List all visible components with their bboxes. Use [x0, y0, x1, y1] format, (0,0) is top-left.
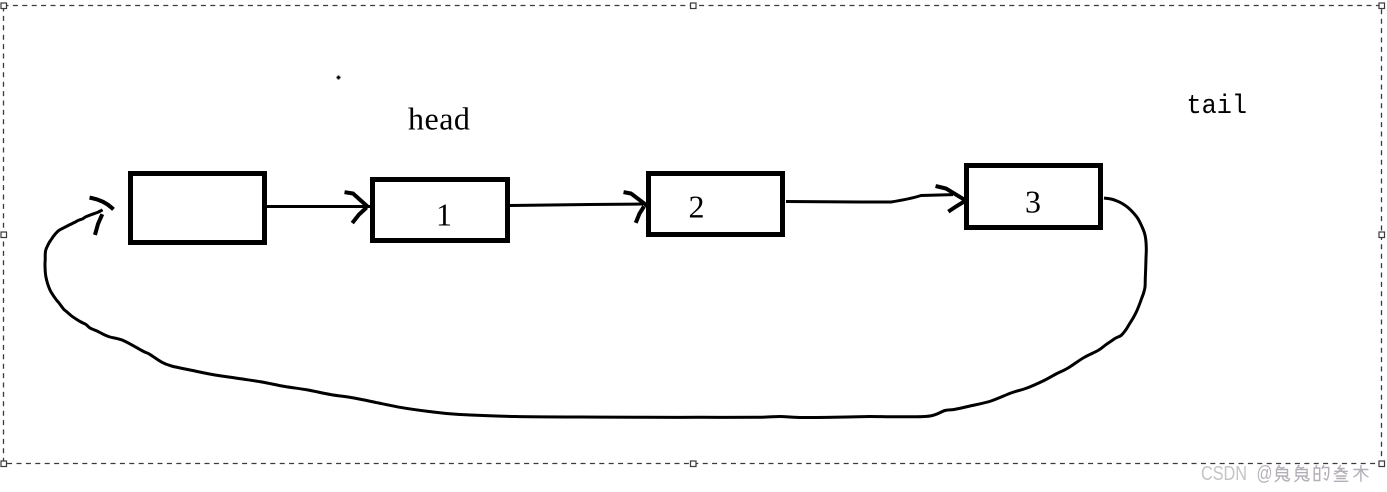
svg-text:CSDN: CSDN	[1201, 463, 1247, 485]
svg-text:@: @	[1257, 463, 1273, 485]
node box head (empty)	[131, 174, 265, 243]
svg-text:head: head	[408, 101, 470, 137]
glyph tu1	[1275, 465, 1290, 482]
svg-text:tail: tail	[1187, 92, 1248, 122]
glyph san	[1334, 465, 1349, 481]
selection handle bottom-center	[691, 461, 697, 467]
arrowhead into box2	[626, 193, 646, 205]
selection handle top-right	[1379, 3, 1385, 9]
svg-text:3: 3	[1025, 184, 1041, 220]
selection handle bottom-left	[1, 461, 7, 467]
svg-text:1: 1	[436, 197, 452, 233]
stray dot	[337, 76, 341, 80]
wire box1 to box2	[510, 204, 643, 206]
wire head-box to box1	[267, 205, 370, 208]
arrowhead into box3	[938, 187, 966, 201]
arrowhead into box1	[347, 193, 368, 207]
selection handle mid-left	[1, 232, 7, 238]
svg-text:2: 2	[689, 189, 705, 225]
selection handle mid-right	[1379, 232, 1385, 238]
selection handle top-left	[1, 3, 7, 9]
glyph de	[1314, 465, 1329, 481]
node box 2	[649, 174, 783, 235]
glyph tu2	[1294, 465, 1309, 482]
watermark chinese glyphs	[1275, 465, 1369, 482]
node box 1	[373, 180, 508, 241]
wire box2 to box3	[786, 195, 953, 202]
selection handle bottom-right	[1379, 461, 1385, 467]
node box 3	[967, 166, 1101, 228]
selection handle top-center	[691, 3, 697, 9]
glyph mu	[1353, 465, 1368, 482]
wire circular loop tail to head	[45, 198, 1146, 418]
arrowhead into head-box	[92, 198, 113, 208]
